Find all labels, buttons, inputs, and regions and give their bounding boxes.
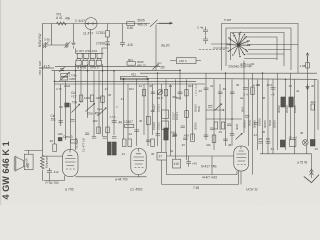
node b5 xyxy=(157,72,159,74)
node b12 xyxy=(54,81,56,83)
svg-text:.44,5: .44,5 xyxy=(156,96,163,100)
wire v277 xyxy=(277,73,279,150)
wire v244 xyxy=(243,61,245,134)
potentiometer arrow P3 xyxy=(98,108,107,116)
capacitor Cq2b xyxy=(92,137,96,139)
potentiometer arrow Px1 xyxy=(215,104,222,111)
svg-text:CL 4501: CL 4501 xyxy=(130,188,143,192)
resistor Rq2 xyxy=(128,139,132,147)
capacitor Cm6 xyxy=(243,88,248,90)
capacitor Ca xyxy=(203,27,208,36)
box C415 xyxy=(173,159,181,168)
resistor Ra xyxy=(79,95,82,102)
svg-text:Cka: Cka xyxy=(97,107,102,111)
wire heater loop 2 xyxy=(162,160,239,184)
svg-text:12.477 1B: 12.477 1B xyxy=(82,138,86,152)
wire bus 4 xyxy=(54,80,196,82)
wire v166 xyxy=(165,79,167,152)
wire v99 xyxy=(98,71,100,133)
svg-text:10000: 10000 xyxy=(258,118,262,126)
wire v294 xyxy=(294,79,296,154)
resistor Rq0 xyxy=(97,127,101,134)
transformer primary zigzag xyxy=(41,155,45,169)
svg-text:.45: .45 xyxy=(288,84,292,88)
wire bottom left xyxy=(44,176,65,181)
wire v65 xyxy=(65,81,67,140)
resistor Rd xyxy=(106,127,110,133)
capacitor Cl1 xyxy=(173,134,177,136)
svg-text:45: 45 xyxy=(149,84,153,88)
svg-text:4×4/7 4/10: 4×4/7 4/10 xyxy=(202,175,217,179)
svg-text:1301: 1301 xyxy=(84,96,91,100)
svg-text:C 4a: C 4a xyxy=(197,26,204,30)
lamp La1 xyxy=(303,140,309,146)
svg-text:15101: 15101 xyxy=(175,112,179,120)
svg-text:5000: 5000 xyxy=(197,105,201,112)
svg-text:.445: .445 xyxy=(95,96,101,100)
wire v220 xyxy=(219,84,221,130)
potentiometer P1 boxes xyxy=(61,73,68,76)
tube V4 envelope xyxy=(234,146,249,171)
capacitor Cq7 xyxy=(204,135,209,137)
svg-text:UCH 11: UCH 11 xyxy=(246,188,258,192)
dial box third xyxy=(231,33,285,67)
svg-text:8.50: 8.50 xyxy=(127,26,133,30)
tube V2 envelope xyxy=(63,150,79,177)
svg-text:4 GW 646 K 1: 4 GW 646 K 1 xyxy=(1,141,11,199)
capacitor C45 xyxy=(186,156,191,167)
wire L6 leads xyxy=(170,60,201,62)
resistor Rl1 xyxy=(162,110,169,119)
svg-text:40.4: 40.4 xyxy=(267,83,273,87)
wire C3 drop xyxy=(73,24,75,42)
wire R2 rail xyxy=(107,24,109,42)
svg-text:.41: .41 xyxy=(120,97,124,101)
wire v175 xyxy=(175,79,177,159)
wire trafo to V2 grid xyxy=(44,155,62,157)
capacitor Cm7 xyxy=(218,92,223,94)
svg-text:5000: 5000 xyxy=(268,119,272,126)
svg-text:411: 411 xyxy=(131,73,136,77)
capacitor Cm4 xyxy=(178,92,183,94)
svg-text:+12: +12 xyxy=(71,95,77,99)
svg-text:.44: .44 xyxy=(270,147,274,151)
wire bandfilter top xyxy=(76,48,108,53)
svg-text:.44: .44 xyxy=(104,87,108,91)
IF transformer T1 core a xyxy=(107,142,111,155)
svg-text:Y.: Y. xyxy=(116,105,119,109)
capacitor Cr1 xyxy=(245,116,249,118)
wire v318 xyxy=(317,79,319,130)
svg-text:41,5: 41,5 xyxy=(44,64,50,68)
tube V1 envelope xyxy=(85,18,97,30)
svg-text:.48: .48 xyxy=(150,109,154,113)
svg-text:.44: .44 xyxy=(138,84,142,88)
resistor Rx1 xyxy=(214,122,218,129)
svg-text:30000: 30000 xyxy=(277,105,281,113)
capacitor Cl2 xyxy=(181,126,185,128)
wire top main xyxy=(42,23,150,25)
wire v290 xyxy=(290,73,292,140)
svg-text:604: 604 xyxy=(241,107,245,112)
speaker mouth xyxy=(14,156,16,172)
capacitor Cka blob xyxy=(65,103,69,107)
svg-text:10000: 10000 xyxy=(293,105,297,113)
wire v148 xyxy=(147,79,149,146)
capacitor Cb xyxy=(203,36,208,45)
box Rf xyxy=(146,117,150,125)
mains arrow stem xyxy=(311,154,313,178)
svg-text:.415: .415 xyxy=(170,131,176,135)
capacitor Cx1 xyxy=(208,106,212,108)
svg-text:17.5: 17.5 xyxy=(110,115,116,119)
svg-text:2.4: 2.4 xyxy=(244,93,249,97)
svg-text:11.477: 11.477 xyxy=(83,32,93,36)
svg-text:a 705: a 705 xyxy=(65,188,74,192)
wire v196 dashed xyxy=(195,84,197,96)
tube V2 electrodes xyxy=(65,150,76,166)
node b6 xyxy=(179,70,181,72)
svg-text:.412: .412 xyxy=(53,170,59,174)
wire heater loop 1 xyxy=(167,160,238,175)
resistor Re xyxy=(142,90,145,96)
svg-text:da.20: da.20 xyxy=(161,44,170,48)
svg-text:120 h: 120 h xyxy=(179,59,187,63)
capacitor Cm5 xyxy=(204,88,209,90)
capacitor Cq10 xyxy=(258,142,263,144)
svg-text:17281: 17281 xyxy=(96,31,105,35)
capacitor Cm3 xyxy=(151,92,156,94)
svg-text:404: 404 xyxy=(311,100,316,104)
capacitor C3 xyxy=(72,42,76,49)
svg-text:150 Ω KW: 150 Ω KW xyxy=(38,61,42,75)
wire right bottom bus xyxy=(260,153,312,155)
wire bus 1 xyxy=(52,70,181,72)
capacitor Cn1 xyxy=(70,120,74,122)
svg-text:al 4785: al 4785 xyxy=(77,66,87,70)
wire v252 xyxy=(252,73,254,174)
capacitor Cq2 xyxy=(112,137,116,139)
resistor Rx2 xyxy=(221,122,225,129)
wire v206 xyxy=(205,73,207,140)
wire V1 drop xyxy=(90,29,92,53)
wire v60 xyxy=(60,84,62,126)
speaker cone xyxy=(16,157,24,171)
capacitor Ckl151 xyxy=(59,121,63,123)
wire v128 xyxy=(127,84,129,139)
capacitor Cm8 xyxy=(230,92,235,94)
svg-text:15101: 15101 xyxy=(157,104,161,112)
coil box L5a xyxy=(76,60,81,65)
wire antenna vertical xyxy=(51,24,53,46)
node b9 xyxy=(262,72,264,74)
wire v268 xyxy=(267,79,269,154)
svg-text:415: 415 xyxy=(174,162,180,166)
svg-text:44: 44 xyxy=(296,89,300,93)
svg-text:Tkl: Tkl xyxy=(59,105,63,109)
diode arrow D1 xyxy=(306,84,309,90)
wire v114 xyxy=(113,71,115,135)
wire v144 xyxy=(143,84,145,135)
wire v192 xyxy=(192,84,194,140)
wire v248 xyxy=(248,79,250,146)
wire lamp drop xyxy=(306,145,308,154)
svg-text:45: 45 xyxy=(262,130,266,134)
svg-text:45: 45 xyxy=(236,83,240,87)
resistor Rq1 xyxy=(122,139,126,147)
svg-text:.415: .415 xyxy=(127,43,133,47)
svg-text:480.01: 480.01 xyxy=(137,64,147,68)
node x2 xyxy=(231,118,233,120)
svg-text:20000: 20000 xyxy=(285,105,289,113)
IF transformer T2 core b xyxy=(289,97,293,107)
svg-text:.45: .45 xyxy=(198,89,202,93)
box R27 xyxy=(157,152,167,160)
svg-text:5000: 5000 xyxy=(248,119,252,126)
coil box L6 xyxy=(177,58,197,64)
svg-text:+45: +45 xyxy=(192,162,197,166)
svg-text:801: 801 xyxy=(128,58,133,62)
svg-text:.49: .49 xyxy=(118,121,123,125)
node b11 xyxy=(123,78,125,80)
svg-text:44b: 44b xyxy=(206,143,211,147)
svg-text:44: 44 xyxy=(210,84,214,88)
wire arrow feed xyxy=(159,22,172,24)
resistor R801 xyxy=(127,62,135,66)
resistor Rl3 xyxy=(185,111,189,118)
svg-text:604: 604 xyxy=(188,84,193,88)
wire h110 xyxy=(206,109,224,111)
potentiometer P1 arrow xyxy=(60,72,70,80)
wire V4 cathode drop xyxy=(212,156,241,184)
svg-text:48: 48 xyxy=(262,96,266,100)
wire bus 3 xyxy=(120,78,317,79)
tube V3 grid dashes xyxy=(135,167,144,169)
svg-text:.44: .44 xyxy=(128,132,132,136)
resistor Rc xyxy=(101,96,104,103)
svg-text:TW: TW xyxy=(72,101,77,105)
svg-text:48: 48 xyxy=(300,131,304,135)
svg-text:1,98: 1,98 xyxy=(300,64,306,68)
svg-text:.44: .44 xyxy=(253,133,257,137)
svg-text:.48: .48 xyxy=(222,87,226,91)
svg-text:15102: 15102 xyxy=(157,122,161,130)
pot circle P4 xyxy=(157,90,162,95)
svg-text:20000: 20000 xyxy=(273,120,277,128)
tube V1 electrodes xyxy=(85,22,97,25)
svg-text:4,65 µ+4Ω: 4,65 µ+4Ω xyxy=(240,62,255,66)
wire v161 xyxy=(161,84,163,152)
resistor R2 xyxy=(106,31,110,38)
svg-text:4000: 4000 xyxy=(235,123,239,130)
switch S1 xyxy=(150,20,158,27)
resistor R1k8 xyxy=(306,63,310,69)
trimmer Tb1 xyxy=(59,67,65,72)
svg-text:Raut.W: Raut.W xyxy=(25,158,29,167)
svg-text:5 W8: 5 W8 xyxy=(224,18,231,22)
socket B1 hub xyxy=(237,43,240,46)
tube V3 electrodes xyxy=(134,149,145,165)
coil box L5c xyxy=(89,60,94,65)
mains V symbol xyxy=(304,175,319,183)
svg-text:20000: 20000 xyxy=(253,120,257,128)
resistor R404a xyxy=(311,104,314,110)
resistor Rv1 xyxy=(53,144,57,152)
svg-text:2492: 2492 xyxy=(64,84,71,88)
wire left rail xyxy=(41,24,43,151)
resistor R12407 xyxy=(125,125,134,128)
coil Lq3 xyxy=(310,140,315,147)
svg-text:C 4/47: C 4/47 xyxy=(75,19,85,23)
wire v94 xyxy=(93,71,95,137)
svg-text:27: 27 xyxy=(159,155,163,159)
potentiometer P5 arrow xyxy=(72,104,80,112)
wire v273 xyxy=(272,79,274,154)
wire h119 xyxy=(206,118,242,120)
wire v123 xyxy=(123,79,125,139)
node b10 xyxy=(147,78,149,80)
wire v186 xyxy=(186,79,188,160)
resistor Rq3 xyxy=(151,139,155,147)
capacitor Cm1 xyxy=(112,121,117,123)
wire v107 xyxy=(107,56,109,142)
capacitor Cn2 blob xyxy=(58,138,62,141)
svg-text:.44: .44 xyxy=(121,152,125,156)
node b7 xyxy=(225,72,227,74)
capacitor C40u xyxy=(271,88,276,90)
wire v225 xyxy=(225,73,227,146)
svg-text:45: 45 xyxy=(311,84,315,88)
svg-text:45: 45 xyxy=(151,152,155,156)
svg-text:4/5: 4/5 xyxy=(258,137,263,141)
transformer winding w1 xyxy=(27,163,29,168)
svg-text:Cka .450: Cka .450 xyxy=(87,112,100,116)
svg-text:45: 45 xyxy=(108,93,112,97)
resistor Rh xyxy=(185,90,188,96)
wire zigzag bottom xyxy=(41,170,43,181)
resistor TF1 xyxy=(57,22,67,25)
svg-text:4.78: 4.78 xyxy=(56,87,62,91)
svg-text:a 75 W: a 75 W xyxy=(297,161,307,165)
svg-text:31,5 Y 4: 31,5 Y 4 xyxy=(75,138,79,149)
svg-text:Eingangstr: Eingangstr xyxy=(45,155,49,168)
wire v54 xyxy=(54,71,56,144)
dial box fourth xyxy=(247,37,277,60)
pot P4 arrow xyxy=(157,90,163,96)
svg-text:151: 151 xyxy=(51,118,57,122)
wire v81 xyxy=(80,64,82,103)
socket pin dots xyxy=(227,32,251,58)
node b3 xyxy=(102,70,104,72)
wire v75 xyxy=(75,64,77,150)
capacitor Cq1 xyxy=(103,137,107,139)
wire v152 xyxy=(152,84,154,135)
svg-text:604: 604 xyxy=(129,87,134,91)
svg-text:2492 b: 2492 b xyxy=(90,66,99,70)
svg-text:.430: .430 xyxy=(183,134,189,138)
node b8 xyxy=(285,79,287,81)
bandfilter box L2 xyxy=(84,53,89,58)
svg-text:30000: 30000 xyxy=(243,120,247,128)
wire dashed AM line xyxy=(199,49,226,51)
coil Lq1 xyxy=(164,128,168,140)
wire coil base xyxy=(55,65,160,67)
svg-text:30000: 30000 xyxy=(263,120,267,128)
resistor Rq5 xyxy=(212,135,216,143)
svg-text:17308: 17308 xyxy=(96,42,105,46)
capacitor Cr2 xyxy=(254,123,258,125)
wire V4 top feed xyxy=(167,155,234,157)
wire bus 5 xyxy=(54,83,205,85)
wire v170 xyxy=(170,84,172,156)
capacitor Cq4 xyxy=(156,134,161,136)
svg-text:7 65: 7 65 xyxy=(193,186,199,190)
socket arrowheads xyxy=(228,33,248,54)
wire v306 xyxy=(307,56,309,140)
resistor Rb xyxy=(90,95,93,102)
node b2 xyxy=(87,70,89,72)
resistor ROmn3 xyxy=(71,140,78,143)
capacitor Cu12 xyxy=(47,168,52,181)
node A xyxy=(41,67,43,69)
wire v87 xyxy=(87,64,89,118)
wire v70 xyxy=(70,103,72,150)
node b4 xyxy=(113,70,115,72)
svg-text:C.007 4/30 4/91: C.007 4/30 4/91 xyxy=(76,49,98,53)
coil Lq2 xyxy=(280,140,285,147)
arrow sym A1 xyxy=(306,53,309,63)
capacitor C2 trimmer xyxy=(65,42,71,49)
svg-text:15108: 15108 xyxy=(152,122,156,130)
capacitor Cx3 xyxy=(210,128,214,130)
wire v136 xyxy=(136,79,138,146)
svg-text:.44: .44 xyxy=(168,84,172,88)
svg-text:30000: 30000 xyxy=(194,122,198,130)
wire v157 xyxy=(157,73,159,146)
wire tube V2 bottom xyxy=(70,175,147,177)
lamp La1 cross xyxy=(303,141,307,145)
svg-text:P.Tkl 700: P.Tkl 700 xyxy=(46,181,59,185)
wire v102 xyxy=(102,64,104,137)
tube V2 grid dashes xyxy=(66,168,75,170)
tube V4 grid dashes xyxy=(237,164,246,166)
IF transformer T2 core a xyxy=(281,97,285,107)
tube V4 electrodes xyxy=(236,146,246,161)
capacitor Cm2 xyxy=(134,130,139,132)
coil box L5b xyxy=(83,60,88,65)
resistor R3 xyxy=(127,22,135,26)
svg-text:48: 48 xyxy=(228,143,232,147)
wire v180 xyxy=(179,70,181,100)
svg-text:45: 45 xyxy=(139,119,143,123)
svg-text:a-44 700: a-44 700 xyxy=(115,177,128,181)
dial box outer xyxy=(222,24,299,74)
svg-text:4/5: 4/5 xyxy=(266,137,271,141)
capacitor Cx2 xyxy=(227,124,231,126)
capacitor C45b xyxy=(161,67,165,69)
capacitor C1 trimmer xyxy=(43,42,49,49)
svg-text:486.01: 486.01 xyxy=(138,23,148,27)
capacitor Cq2c xyxy=(85,133,89,135)
mains arrowhead xyxy=(310,169,314,175)
resistor Rl2 xyxy=(162,121,169,130)
svg-text:NSW KW: NSW KW xyxy=(38,34,42,47)
transformer Tr box xyxy=(24,154,33,169)
svg-text:15 mA: 15 mA xyxy=(289,136,298,140)
IF transformer T1 core b xyxy=(112,142,116,155)
svg-text:5×417 74B: 5×417 74B xyxy=(201,164,217,168)
node x1 xyxy=(223,109,225,111)
